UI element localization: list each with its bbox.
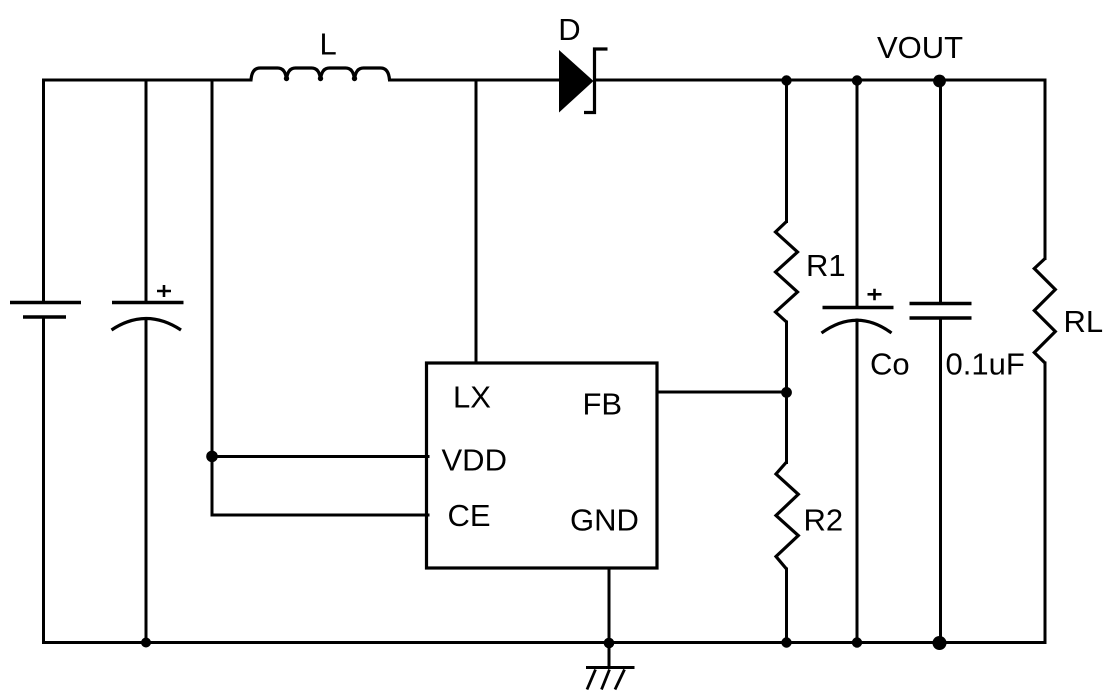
wire diode to VOUT corner	[595, 79, 1045, 82]
wire VDD	[212, 455, 428, 458]
node FB junction	[781, 387, 792, 398]
wire R2 to ground rail	[785, 569, 788, 643]
node 0.1uF top	[933, 75, 946, 88]
wire top rail left (battery to inductor)	[44, 79, 252, 82]
node 0.1uF bottom	[933, 636, 947, 650]
wire RL to bottom rail	[1044, 363, 1047, 643]
svg-text:GND: GND	[570, 503, 639, 538]
node Co bottom	[852, 637, 862, 647]
wire VDD/CE branch vertical	[211, 80, 214, 515]
wire left vertical (battery top)	[42, 80, 45, 301]
svg-text:R1: R1	[806, 248, 846, 283]
resistor R2	[776, 462, 798, 569]
resistor RL	[1034, 259, 1055, 364]
capacitor Cin (polarized)	[112, 285, 184, 330]
wire LX branch	[475, 80, 478, 363]
resistor R1	[776, 222, 798, 323]
wire input cap branch top	[145, 80, 148, 301]
wire GND pin down	[608, 568, 611, 667]
wire Co branch bottom	[856, 320, 859, 643]
svg-text:RL: RL	[1064, 304, 1104, 339]
wire right vertical to RL	[1044, 80, 1047, 259]
diode D	[559, 49, 608, 113]
svg-text:LX: LX	[453, 379, 491, 414]
svg-text:VDD: VDD	[442, 442, 507, 477]
node R2 bottom	[781, 637, 791, 647]
wire inductor to diode	[390, 79, 561, 82]
svg-text:R2: R2	[804, 503, 844, 538]
node GND / ground rail	[604, 638, 615, 649]
wire R1 to R2	[785, 322, 788, 463]
wire 0.1uF branch bottom	[939, 318, 942, 643]
wire VOUT to R1	[785, 80, 788, 222]
wire left vertical (battery bottom)	[42, 319, 45, 643]
wire Co branch top	[856, 80, 859, 306]
svg-text:0.1uF: 0.1uF	[946, 346, 1025, 381]
node input cap / ground rail	[141, 638, 151, 648]
IC U1 (DC/DC converter box)	[427, 363, 658, 568]
wire CE	[212, 514, 428, 517]
node Co top	[852, 75, 862, 85]
ground	[586, 668, 635, 690]
wire input cap branch bottom	[145, 319, 148, 643]
capacitor Co (polarized)	[822, 289, 894, 333]
battery	[10, 303, 81, 318]
wire bottom rail	[44, 641, 1046, 644]
wire 0.1uF branch top	[939, 80, 942, 302]
svg-text:VOUT: VOUT	[877, 30, 963, 65]
svg-text:L: L	[320, 27, 337, 62]
svg-text:FB: FB	[583, 387, 623, 422]
node R1 top	[781, 75, 791, 85]
svg-text:CE: CE	[448, 498, 491, 533]
capacitor 0.1uF	[910, 304, 972, 319]
svg-text:D: D	[558, 12, 580, 47]
inductor L	[251, 68, 390, 81]
svg-text:Co: Co	[870, 346, 910, 381]
wire FB to divider	[657, 391, 787, 394]
node VDD junction	[206, 451, 218, 463]
